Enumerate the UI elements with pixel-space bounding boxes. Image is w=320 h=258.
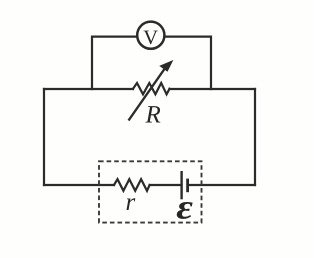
resistor R arrowhead: [160, 61, 172, 71]
wire top right segment: [170, 88, 256, 90]
svg-text:R: R: [145, 102, 161, 129]
wire outer loop left side: [43, 89, 45, 185]
svg-text:V: V: [143, 27, 158, 49]
wire bottom right segment: [188, 184, 255, 186]
wire top left segment: [44, 88, 133, 90]
battery dashed outline box: [99, 161, 202, 222]
wire outer loop right side: [254, 89, 256, 185]
battery cell long plate: [180, 171, 182, 199]
resistor R arrow shaft: [129, 68, 166, 121]
resistor r zigzag: [114, 179, 150, 191]
wire bottom mid segment: [150, 184, 182, 186]
wire voltmeter right leg: [166, 37, 211, 89]
wire bottom left segment: [44, 184, 114, 186]
svg-text:ε: ε: [176, 188, 193, 227]
voltmeter V1 circle: [137, 22, 164, 49]
battery cell short plate: [186, 179, 189, 193]
svg-text:r: r: [126, 189, 136, 216]
resistor R (variable) zigzag: [133, 83, 170, 94]
wire voltmeter left leg: [92, 37, 136, 89]
